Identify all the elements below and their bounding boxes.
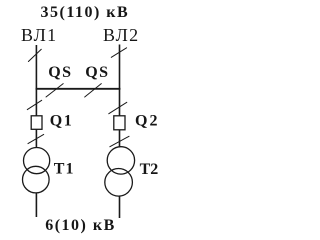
disconnector slash on ВЛ1 line — [28, 49, 41, 61]
disconnector QS slash (left, on jumper) — [46, 84, 63, 97]
breaker Q1 — [31, 116, 42, 130]
disconnector slash on ВЛ2 line — [111, 48, 126, 58]
svg-text:Т2: Т2 — [140, 161, 159, 178]
node ВЛ1 (overhead line 1) — [21, 25, 57, 45]
svg-text:Q1: Q1 — [50, 112, 73, 129]
label Q2 — [135, 113, 159, 130]
label T1 — [54, 161, 75, 178]
label T2 — [140, 161, 159, 178]
transformer T1 (two-winding) — [23, 148, 50, 193]
label Q1 — [50, 112, 73, 129]
breaker Q2 — [114, 116, 125, 130]
wire: breaker Q2 to transformer T2 — [119, 130, 121, 149]
svg-text:QS: QS — [48, 64, 72, 81]
disconnector slash above transformer T2 — [110, 136, 129, 146]
svg-text:35(110) кВ: 35(110) кВ — [41, 4, 130, 21]
label QS (left disconnector) — [48, 64, 72, 81]
svg-text:ВЛ2: ВЛ2 — [103, 25, 139, 45]
wire: breaker Q1 to transformer T1 — [35, 129, 37, 148]
wire: ВЛ1 feeder drop to breaker Q1 — [35, 45, 37, 116]
disconnector slash above transformer T1 — [28, 134, 44, 143]
svg-text:Q2: Q2 — [135, 113, 159, 130]
wire: T1 secondary to 6(10) кВ — [35, 193, 37, 217]
disconnector slash below bus on ВЛ2 branch — [109, 102, 127, 113]
disconnector slash below bus on ВЛ1 branch — [27, 100, 41, 109]
node ВЛ2 (overhead line 2) — [103, 25, 139, 45]
svg-text:6(10) кВ: 6(10) кВ — [45, 217, 116, 234]
wire: T2 secondary to 6(10) кВ — [119, 196, 121, 219]
label: 35(110) кВ high-voltage side — [41, 4, 130, 21]
svg-text:ВЛ1: ВЛ1 — [21, 25, 57, 45]
svg-text:QS: QS — [85, 64, 109, 81]
label: 6(10) кВ low-voltage side — [45, 217, 116, 234]
transformer T2 (two-winding) — [105, 147, 135, 196]
svg-text:Т1: Т1 — [54, 161, 75, 178]
wire: ВЛ2 feeder drop to breaker Q2 — [119, 45, 121, 116]
disconnector QS slash (right, on jumper) — [85, 84, 102, 97]
label QS (right disconnector) — [85, 64, 109, 81]
wire: jumper bus between feeders — [36, 88, 121, 90]
